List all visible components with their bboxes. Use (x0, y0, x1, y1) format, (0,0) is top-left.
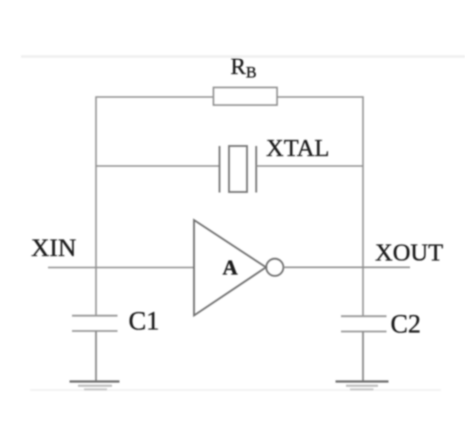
wire top rail left (96, 96, 214, 98)
svg-text:C1: C1 (129, 306, 160, 336)
svg-text:RB: RB (231, 54, 257, 82)
ground right (336, 382, 389, 390)
resistor RB (214, 88, 278, 106)
capacitor C2 (341, 316, 387, 331)
capacitor C1 (72, 316, 118, 331)
wire left bus (95, 96, 97, 316)
wire top rail right (277, 96, 363, 98)
wire C1 to ground (95, 331, 97, 382)
svg-text:A: A (223, 256, 239, 280)
wire crystal right (256, 165, 363, 167)
wire XIN input (48, 267, 194, 269)
svg-text:XOUT: XOUT (375, 240, 443, 267)
crystal XTAL (220, 146, 257, 193)
svg-text:C2: C2 (391, 310, 421, 339)
wire XOUT output (284, 266, 411, 268)
inverter A (194, 220, 283, 316)
wire right bus (362, 96, 364, 316)
svg-text:XIN: XIN (31, 233, 76, 262)
wire crystal left (96, 165, 220, 167)
wire C2 to ground (362, 332, 364, 382)
svg-text:XTAL: XTAL (266, 135, 329, 162)
ground left (70, 382, 120, 390)
